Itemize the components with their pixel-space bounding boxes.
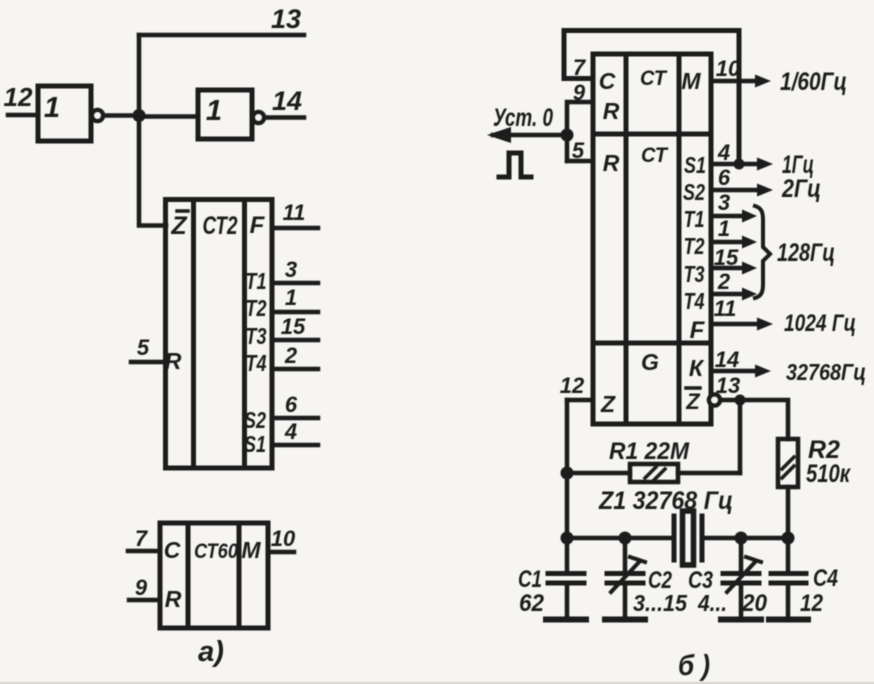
wire DD2 pin 10 M output 1/60Hz <box>711 79 758 84</box>
svg-text:5: 5 <box>572 138 585 163</box>
capacitor C2 plates <box>607 574 643 584</box>
wire CT60 pin 7 C input <box>128 549 160 554</box>
svg-text:7: 7 <box>573 55 587 80</box>
arrowhead T2 <box>742 236 757 249</box>
wire DD1.1 output to node A <box>104 113 140 118</box>
svg-text:62: 62 <box>519 590 545 617</box>
svg-text:10: 10 <box>716 56 741 81</box>
wire DD1.2 output pin 14 <box>265 115 305 120</box>
svg-text:Z: Z <box>170 212 188 240</box>
wire DD2 pin 12 Z input <box>567 398 593 403</box>
svg-text:G: G <box>641 349 659 375</box>
ground bar C1 <box>546 617 586 623</box>
node crystal-left junction dot <box>561 532 574 545</box>
svg-text:2Гц: 2Гц <box>781 175 821 203</box>
svg-text:R1 22М: R1 22М <box>609 438 690 465</box>
svg-text:9: 9 <box>135 575 148 600</box>
wire CT2 pin 5 R input <box>131 360 164 365</box>
wire CT2 pin 3 output T1 <box>272 281 318 286</box>
arrowhead Ust.0 <box>487 127 511 143</box>
capacitor C3 plates <box>723 574 759 584</box>
wire DD2 pin 3 T1 output <box>711 214 745 219</box>
svg-text:32768Гц: 32768Гц <box>786 359 866 385</box>
svg-text:1024 Гц: 1024 Гц <box>784 310 856 337</box>
counter CT60 left column divider <box>186 523 191 628</box>
svg-text:T2: T2 <box>684 233 705 259</box>
wire net 13 (top horizontal from junction) <box>139 33 304 38</box>
variable arrow C2 <box>611 557 645 592</box>
DD2 divider above G/K section <box>593 341 711 346</box>
svg-text:К: К <box>689 355 705 381</box>
svg-text:Z: Z <box>685 389 701 414</box>
inverter DD1.1 output bubble <box>92 110 103 121</box>
wire Ust.0 reset line with left arrow <box>493 133 567 138</box>
arrowhead 2Hz <box>757 184 773 197</box>
ground bar C2 <box>605 617 645 623</box>
svg-text:T1: T1 <box>246 268 267 294</box>
svg-text:20: 20 <box>741 590 768 617</box>
wire DD2 pin 6 S2 output 2Hz <box>711 188 760 193</box>
node R1 left junction dot <box>561 467 574 480</box>
crystal Z1 left plate <box>672 516 677 560</box>
variable arrow C3 <box>727 557 761 592</box>
svg-text:3: 3 <box>718 190 730 215</box>
svg-text:Z: Z <box>600 391 616 417</box>
wire DD2 pin 9 R input <box>567 102 593 135</box>
wire R1 right <box>678 471 740 476</box>
capacitor C4 bottom lead <box>786 586 791 618</box>
wire DD2 pin 2 T4 output <box>711 292 745 297</box>
svg-text:10: 10 <box>271 526 296 551</box>
DD2 left column divider <box>624 54 629 424</box>
inverter DD1.1 body <box>38 86 91 141</box>
arrowhead 1/60Hz <box>755 75 771 88</box>
resistor R2 body <box>778 439 798 487</box>
node C3 branch junction dot <box>735 532 748 545</box>
svg-text:4: 4 <box>284 419 297 444</box>
wire DD2 pin 4 S1 output 1Hz <box>711 162 760 167</box>
wire CT60 pin 9 R input <box>129 598 160 603</box>
capacitor C1 top lead <box>565 538 570 571</box>
wire reset junction down to pin 5 <box>565 135 570 161</box>
svg-text:C: C <box>164 537 181 563</box>
svg-text:С1: С1 <box>518 566 542 593</box>
svg-text:СТ60: СТ60 <box>194 540 238 563</box>
inverter DD1.2 output bubble <box>253 112 264 123</box>
capacitor C3 bottom lead <box>739 586 744 618</box>
DD2 Z-bar overbar <box>686 386 700 390</box>
svg-text:128Гц: 128Гц <box>777 239 835 267</box>
svg-text:Z1 32768 Гц: Z1 32768 Гц <box>598 487 733 515</box>
svg-text:14: 14 <box>715 347 739 372</box>
counter CT60 right column divider <box>237 523 242 628</box>
node loop-S1 junction dot <box>734 159 745 170</box>
svg-text:15: 15 <box>714 245 739 270</box>
svg-text:C: C <box>599 68 616 94</box>
svg-text:12: 12 <box>4 82 33 112</box>
svg-text:1: 1 <box>718 216 730 241</box>
svg-text:S2: S2 <box>244 407 266 433</box>
wire feedback loop S1 output to C input pin 7 <box>564 31 739 165</box>
counter CT2 body <box>166 200 273 469</box>
svg-text:F: F <box>690 317 706 344</box>
wire DD2 pin 14 K output 32768Hz <box>711 369 758 374</box>
capacitor C2 bottom lead <box>623 586 628 618</box>
svg-text:15: 15 <box>281 314 306 339</box>
svg-text:2: 2 <box>717 269 731 294</box>
svg-text:2: 2 <box>284 343 298 368</box>
node reset junction dot <box>561 129 574 142</box>
svg-text:T1: T1 <box>684 206 705 232</box>
capacitor C3 top lead <box>739 538 744 571</box>
wire junction down to R1 right end <box>738 400 743 473</box>
capacitor C1 bottom lead <box>565 586 570 618</box>
wire CT2 pin 2 output T4 <box>272 367 318 372</box>
wire CT2 pin 6 output S2 <box>272 416 318 421</box>
crystal line left <box>567 536 674 541</box>
wire left oscillator vertical <box>565 400 570 538</box>
node pin13 junction dot <box>735 395 746 406</box>
pulse waveform symbol <box>499 153 531 177</box>
svg-text:12: 12 <box>560 373 585 398</box>
svg-text:СТ: СТ <box>641 144 669 167</box>
svg-text:СТ: СТ <box>640 67 668 90</box>
wire DD2 pin 15 T3 output <box>711 266 745 271</box>
svg-text:T3: T3 <box>684 261 705 287</box>
svg-text:14: 14 <box>272 86 302 116</box>
svg-text:1: 1 <box>44 92 60 124</box>
ground bar C3 <box>721 617 761 623</box>
DD2 Z-bar output bubble pin 13 <box>709 395 720 406</box>
capacitor C1 plates <box>548 574 584 584</box>
capacitor C4 plates <box>771 574 806 584</box>
svg-text:1: 1 <box>206 95 222 127</box>
wire pin 13 to R2 branch <box>721 400 788 439</box>
svg-text:С4: С4 <box>813 565 838 592</box>
wire R1 left <box>567 471 630 476</box>
inverter DD1.2 body <box>198 90 252 139</box>
svg-text:1: 1 <box>285 285 297 310</box>
wire input pin 12 to inverter DD1.1 <box>8 113 38 118</box>
svg-text:Уст. 0: Уст. 0 <box>493 104 553 132</box>
svg-text:1/60Гц: 1/60Гц <box>780 68 847 96</box>
svg-text:4...: 4... <box>697 590 727 616</box>
svg-text:S1: S1 <box>244 431 266 457</box>
arrowhead T1 <box>742 210 757 223</box>
svg-text:T4: T4 <box>246 350 267 376</box>
counter DD2 body (K176IE12) <box>593 54 711 424</box>
counter CT2 right column divider <box>242 200 247 469</box>
arrowhead 32768Hz <box>755 365 771 378</box>
arrowhead 1Hz <box>757 158 773 171</box>
arrowhead T4 <box>742 288 757 301</box>
arrowhead 1024Hz <box>757 318 773 331</box>
wire DD2 pin 5 R input <box>567 159 593 164</box>
wire DD2 pin 1 T2 output <box>711 240 745 245</box>
node R2/C4 branch junction dot <box>782 532 795 545</box>
svg-text:6: 6 <box>285 392 298 417</box>
ground bar C4 <box>769 617 808 623</box>
svg-text:3...15: 3...15 <box>633 590 688 616</box>
svg-text:9: 9 <box>573 80 586 105</box>
wire vertical junction to CT2 Z input <box>139 35 166 226</box>
svg-text:4: 4 <box>717 140 730 165</box>
node A junction dot <box>133 109 146 122</box>
wire CT2 pin 4 output S1 <box>272 443 318 448</box>
crystal line right <box>702 536 788 541</box>
svg-text:7: 7 <box>135 526 149 551</box>
CT2 Z-bar overbar <box>177 209 188 213</box>
crystal Z1 body <box>683 511 694 565</box>
svg-text:12: 12 <box>800 590 824 617</box>
resistor R1 body <box>630 464 678 482</box>
svg-text:510к: 510к <box>806 460 851 488</box>
svg-text:а): а) <box>198 636 224 668</box>
resistor R2 diagonal marks <box>782 457 794 478</box>
bottom scan edge artifact <box>0 682 874 684</box>
svg-text:R: R <box>165 586 182 612</box>
svg-text:S2: S2 <box>683 179 705 205</box>
wire DD2 pin 11 F output 1024Hz <box>711 322 760 327</box>
capacitor C2 top lead <box>623 538 628 571</box>
brace grouping T1-T4 128Hz <box>755 206 770 298</box>
svg-text:T2: T2 <box>246 295 267 321</box>
svg-text:13: 13 <box>716 373 740 398</box>
svg-text:R: R <box>165 348 182 374</box>
DD2 divider between CT60 and CT2 sections <box>593 132 711 137</box>
svg-text:11: 11 <box>714 296 737 321</box>
svg-text:S1: S1 <box>684 152 706 178</box>
wire CT60 pin 10 M output <box>268 550 294 555</box>
svg-text:R: R <box>603 150 620 176</box>
svg-text:11: 11 <box>283 200 306 225</box>
wire R2 bottom to crystal line <box>786 487 791 538</box>
svg-text:5: 5 <box>137 335 150 360</box>
counter CT2 left column divider <box>191 200 196 469</box>
svg-text:М: М <box>241 537 261 563</box>
crystal Z1 right plate <box>700 516 705 560</box>
svg-text:М: М <box>681 68 701 94</box>
wire node A to inverter DD1.2 input <box>139 114 198 119</box>
svg-text:б ): б ) <box>678 650 710 682</box>
svg-text:F: F <box>250 212 266 239</box>
capacitor C4 top lead <box>786 538 791 571</box>
svg-text:СТ2: СТ2 <box>203 212 238 240</box>
svg-text:3: 3 <box>285 257 297 282</box>
node C2 branch junction dot <box>619 532 632 545</box>
svg-text:R: R <box>603 98 620 124</box>
svg-text:T4: T4 <box>684 288 705 314</box>
resistor R1 diagonal marks <box>645 467 665 480</box>
svg-text:13: 13 <box>271 4 301 34</box>
svg-text:6: 6 <box>718 165 731 190</box>
counter CT60 body <box>160 523 268 628</box>
wire CT2 pin 15 output T3 <box>272 338 318 343</box>
arrowhead T3 <box>742 262 757 275</box>
DD2 right column divider <box>677 54 682 424</box>
wire CT2 pin 11 output F <box>272 226 318 231</box>
wire CT2 pin 1 output T2 <box>272 310 318 315</box>
svg-text:T3: T3 <box>246 323 267 349</box>
